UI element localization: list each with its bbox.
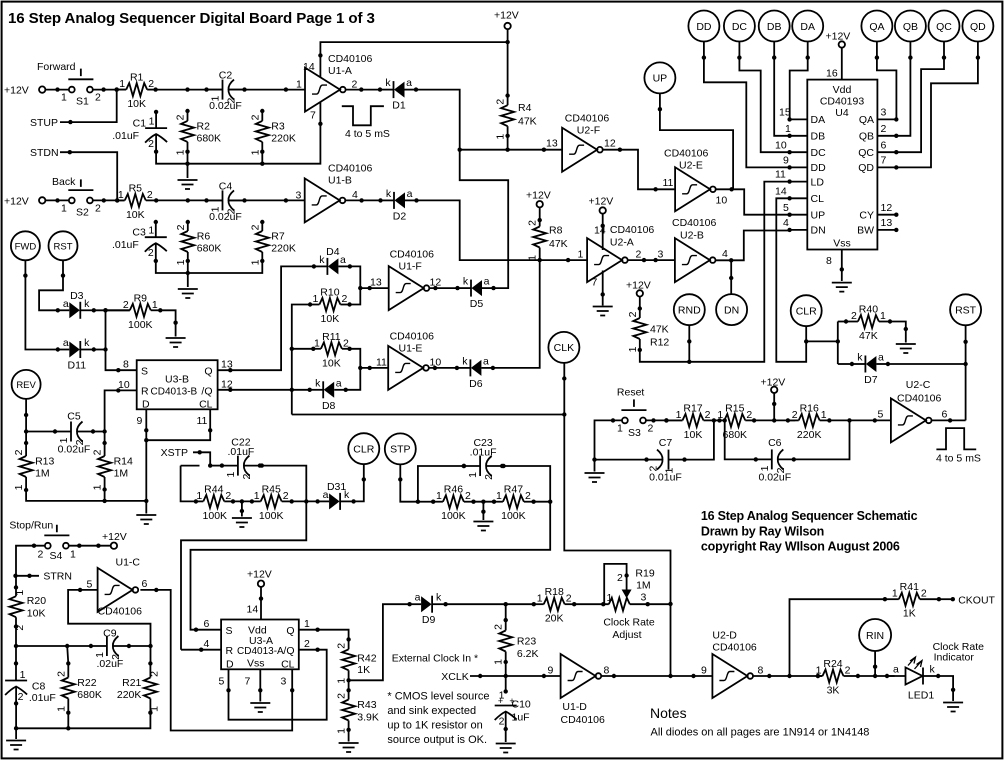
- svg-text:R10: R10: [320, 287, 339, 299]
- resistor R44: [194, 483, 236, 522]
- svg-text:13: 13: [370, 277, 382, 289]
- power +12V terminal: [102, 531, 127, 549]
- svg-text:12: 12: [604, 138, 616, 150]
- svg-text:+12V: +12V: [102, 531, 127, 543]
- power +12V terminal: [4, 195, 45, 207]
- svg-text:6: 6: [942, 408, 948, 420]
- svg-text:S3: S3: [628, 427, 641, 439]
- svg-text:9: 9: [137, 415, 143, 427]
- svg-text:CD4013-B: CD4013-B: [151, 387, 198, 398]
- svg-text:FWD: FWD: [15, 242, 37, 253]
- svg-text:C4: C4: [219, 180, 233, 192]
- connector DB: [759, 11, 790, 42]
- svg-text:1: 1: [336, 728, 348, 734]
- svg-text:2: 2: [746, 409, 752, 421]
- svg-text:16: 16: [826, 68, 838, 80]
- svg-text:U3-A: U3-A: [249, 635, 273, 647]
- svg-text:a: a: [484, 276, 490, 288]
- svg-text:+12V: +12V: [4, 85, 29, 97]
- wire R41 to CKOUT: [939, 594, 996, 606]
- svg-text:R24: R24: [823, 658, 842, 670]
- svg-text:copyright Ray WIlson August 20: copyright Ray WIlson August 2006: [701, 540, 900, 554]
- svg-text:k: k: [436, 592, 442, 604]
- svg-text:S2: S2: [76, 206, 89, 218]
- U2-A pin 7 wire to ground: [601, 271, 605, 306]
- capacitor C22: [220, 437, 262, 480]
- svg-text:1: 1: [496, 490, 502, 502]
- svg-text:U2-B: U2-B: [680, 230, 704, 242]
- svg-text:C7: C7: [659, 437, 673, 449]
- svg-text:U2-E: U2-E: [679, 160, 703, 172]
- pulse waveform 4 to 5 mS (high pulse): [936, 428, 981, 464]
- svg-text:2: 2: [483, 474, 495, 480]
- svg-text:1: 1: [467, 472, 479, 478]
- svg-text:QA: QA: [859, 114, 874, 126]
- svg-text:+12V: +12V: [494, 10, 519, 22]
- svg-text:R3: R3: [271, 120, 285, 132]
- svg-text:1: 1: [254, 490, 260, 502]
- wire R11 left to riser: [292, 348, 314, 350]
- svg-text:1: 1: [527, 255, 539, 261]
- wire R18 to R19: [574, 602, 609, 606]
- UP connector stem wire: [658, 93, 733, 189]
- ground: [339, 743, 359, 752]
- svg-text:R2: R2: [197, 120, 211, 132]
- svg-text:a: a: [878, 352, 884, 364]
- wire C23 right loop to R47 node and S riser: [191, 464, 553, 632]
- wire D3 to R9: [94, 309, 130, 311]
- capacitor C6: [754, 437, 796, 484]
- switch S3: [621, 399, 646, 423]
- svg-text:D31: D31: [327, 481, 346, 493]
- wire C6 right riser: [794, 420, 850, 459]
- svg-text:8: 8: [758, 664, 764, 676]
- svg-text:2: 2: [792, 409, 798, 421]
- svg-text:2: 2: [241, 474, 253, 480]
- U4 left pin leads: [775, 107, 807, 233]
- svg-text:680K: 680K: [197, 243, 222, 255]
- svg-text:R43: R43: [357, 699, 376, 711]
- svg-text:1: 1: [314, 337, 320, 349]
- svg-text:1: 1: [717, 409, 723, 421]
- svg-text:220K: 220K: [797, 429, 822, 441]
- svg-text:a: a: [63, 298, 69, 310]
- svg-text:STRN: STRN: [43, 570, 72, 582]
- svg-text:2: 2: [648, 423, 654, 435]
- svg-text:14: 14: [303, 61, 315, 73]
- svg-text:1: 1: [785, 123, 791, 135]
- wire +12V to S2: [45, 198, 68, 202]
- wire R14 top: [104, 432, 106, 444]
- resistor R2: [175, 109, 222, 156]
- svg-text:S: S: [226, 625, 233, 637]
- wire S3 left to ground: [592, 418, 622, 471]
- svg-text:1: 1: [578, 249, 584, 261]
- U1-B labels: [296, 163, 373, 202]
- node XCLK: [441, 665, 560, 684]
- wire U1-C output to U3-A CL: [140, 588, 294, 731]
- svg-text:14: 14: [247, 604, 259, 616]
- diode D1: [378, 77, 418, 112]
- svg-text:DN: DN: [724, 304, 739, 316]
- svg-text:k: k: [84, 337, 90, 349]
- svg-text:U2-A: U2-A: [610, 236, 634, 248]
- ground: [6, 741, 26, 750]
- svg-text:1: 1: [436, 490, 442, 502]
- svg-text:220K: 220K: [271, 132, 296, 144]
- svg-text:R46: R46: [444, 484, 463, 496]
- switch S4: [44, 525, 69, 549]
- svg-text:R6: R6: [197, 231, 211, 243]
- svg-text:R7: R7: [271, 231, 285, 243]
- svg-text:2: 2: [13, 449, 25, 455]
- STP stem wire to R46 node: [398, 464, 420, 504]
- svg-text:2: 2: [617, 572, 623, 584]
- svg-text:U1-C: U1-C: [116, 557, 141, 569]
- inverter U2-D: [712, 654, 753, 698]
- capacitor C2: [204, 70, 246, 113]
- wire S2 to R5 node: [93, 198, 124, 202]
- svg-text:C3: C3: [132, 227, 146, 239]
- svg-text:8: 8: [826, 255, 832, 267]
- svg-text:1: 1: [92, 484, 104, 490]
- connector STP: [385, 433, 416, 464]
- FWD stem wire to D11: [23, 260, 58, 349]
- svg-text:Adjust: Adjust: [612, 629, 641, 641]
- svg-text:C1: C1: [133, 118, 147, 130]
- svg-text:4 to 5 mS: 4 to 5 mS: [345, 128, 390, 140]
- svg-text:LED1: LED1: [908, 690, 934, 702]
- connector RND: [674, 294, 705, 325]
- connector QC: [929, 11, 960, 42]
- svg-text:2: 2: [499, 716, 505, 728]
- potentiometer R19: [603, 564, 655, 641]
- ground: [832, 283, 852, 292]
- svg-text:a: a: [406, 77, 412, 89]
- svg-text:DB: DB: [767, 21, 782, 33]
- svg-text:R22: R22: [77, 677, 96, 689]
- wire U2-A input row: [540, 249, 587, 263]
- svg-text:CD40106: CD40106: [672, 217, 717, 229]
- resistor R17: [664, 402, 716, 441]
- inverter U2-E: [675, 167, 716, 211]
- svg-text:R15: R15: [725, 402, 744, 414]
- wire U3-B /Q to D8: [218, 378, 310, 392]
- svg-text:and sink expected: and sink expected: [387, 705, 476, 717]
- CMOS note text: [387, 691, 489, 747]
- resistor R7: [249, 220, 296, 266]
- svg-text:10K: 10K: [27, 608, 46, 620]
- svg-text:2: 2: [95, 202, 101, 214]
- svg-text:R1: R1: [130, 72, 144, 84]
- connector QD: [962, 11, 993, 42]
- connector FWD: [11, 231, 40, 260]
- CLK stem and riser down: [562, 363, 673, 678]
- wire S1 to R1 node: [93, 87, 126, 91]
- wire R13 top: [25, 432, 27, 444]
- svg-text:2: 2: [636, 249, 642, 261]
- bottom rail C8 R22 R21: [14, 713, 151, 739]
- svg-text:a: a: [63, 337, 69, 349]
- wire R12 bottom rail to LD: [640, 182, 790, 364]
- svg-text:1: 1: [537, 593, 543, 605]
- svg-text:2: 2: [493, 624, 505, 630]
- resistor R46: [431, 484, 476, 523]
- wire R40 to ground: [838, 322, 908, 343]
- LED LED1: [885, 657, 941, 702]
- svg-text:a: a: [483, 355, 489, 367]
- svg-text:6: 6: [881, 139, 887, 151]
- wire R20 bottom to C9 row and C8: [14, 627, 18, 681]
- IC U4 CD40193: [807, 80, 877, 250]
- wire R23 top: [505, 604, 507, 620]
- svg-text:1: 1: [148, 706, 160, 712]
- svg-text:1: 1: [14, 590, 26, 596]
- svg-text:U3-B: U3-B: [165, 373, 189, 385]
- svg-text:13: 13: [546, 138, 558, 150]
- svg-text:XSTP: XSTP: [161, 447, 188, 459]
- svg-text:9: 9: [783, 155, 789, 167]
- svg-text:CLK: CLK: [554, 342, 574, 354]
- svg-text:UP: UP: [653, 73, 668, 85]
- U3-B D CL jumper and ground drop: [137, 409, 213, 513]
- wire D5 anode to U2-F input riser: [460, 150, 509, 288]
- svg-text:CD40106: CD40106: [712, 642, 757, 654]
- ground: [250, 703, 270, 712]
- svg-text:DA: DA: [800, 21, 815, 33]
- wire R11 to U1-E input: [346, 349, 389, 390]
- svg-text:7: 7: [310, 110, 316, 122]
- svg-text:8: 8: [604, 664, 610, 676]
- svg-text:U1-F: U1-F: [399, 261, 422, 273]
- svg-text:20K: 20K: [545, 613, 564, 625]
- svg-text:CD40106: CD40106: [610, 224, 655, 236]
- resistor R14: [92, 441, 133, 492]
- svg-text:R: R: [141, 386, 149, 398]
- wire C23 left loop: [418, 464, 466, 502]
- svg-text:10: 10: [118, 379, 130, 391]
- svg-text:47K: 47K: [650, 324, 669, 336]
- svg-text:R23: R23: [517, 636, 536, 648]
- wire +12V to S1: [45, 87, 68, 91]
- svg-text:R9: R9: [134, 292, 148, 304]
- svg-text:2: 2: [343, 337, 349, 349]
- svg-text:2: 2: [148, 671, 160, 677]
- wire C10 to ground: [505, 729, 507, 742]
- svg-text:Q: Q: [204, 366, 212, 378]
- svg-text:2: 2: [18, 691, 24, 703]
- wire R4 top from +12V rail: [507, 42, 509, 96]
- svg-text:6: 6: [142, 578, 148, 590]
- svg-text:R5: R5: [129, 182, 143, 194]
- svg-text:CKOUT: CKOUT: [958, 594, 995, 606]
- svg-text:1M: 1M: [35, 468, 50, 480]
- ground: [232, 518, 252, 527]
- ground: [473, 522, 493, 531]
- U2-C labels: [897, 379, 948, 420]
- svg-text:6: 6: [204, 618, 210, 630]
- U3-A Vdd +12V: [259, 587, 263, 620]
- svg-text:R: R: [226, 645, 234, 657]
- resistor R9: [103, 292, 162, 331]
- svg-text:k: k: [84, 298, 90, 310]
- svg-text:1: 1: [175, 149, 187, 155]
- svg-text:R17: R17: [683, 402, 702, 414]
- svg-text:1: 1: [70, 549, 76, 561]
- svg-text:16 Step Analog Sequencer Schem: 16 Step Analog Sequencer Schematic: [701, 509, 918, 523]
- resistor R3: [249, 109, 296, 156]
- resistor R20: [10, 585, 27, 630]
- connector CLR: [348, 433, 379, 464]
- svg-text:U1-E: U1-E: [399, 343, 423, 355]
- wire C8 to bottom rail: [15, 703, 17, 728]
- svg-text:0.02uF: 0.02uF: [758, 471, 791, 483]
- svg-text:CD40106: CD40106: [897, 393, 942, 405]
- svg-text:R4: R4: [518, 102, 532, 114]
- svg-text:1: 1: [61, 202, 67, 214]
- svg-text:3: 3: [281, 676, 287, 688]
- svg-text:S1: S1: [76, 96, 89, 108]
- svg-text:source output is OK.: source output is OK.: [387, 734, 487, 746]
- svg-text:R45: R45: [262, 483, 281, 495]
- switch S1: [37, 61, 93, 93]
- inverter U1-C: [98, 568, 139, 612]
- svg-text:U1-A: U1-A: [328, 65, 352, 77]
- connector DC: [724, 11, 755, 42]
- resistor R1: [115, 72, 158, 111]
- RIN stem wire: [873, 651, 877, 678]
- svg-text:2: 2: [851, 310, 857, 322]
- resistor R45: [250, 483, 294, 522]
- wire C7 to R17 node riser: [595, 420, 714, 459]
- svg-text:3K: 3K: [827, 685, 840, 697]
- wire R42 R43 junction: [348, 680, 350, 741]
- capacitor C1: [112, 110, 167, 154]
- svg-text:a: a: [340, 254, 346, 266]
- svg-text:U1-B: U1-B: [328, 175, 352, 187]
- svg-text:R11: R11: [322, 331, 341, 343]
- svg-text:QB: QB: [859, 131, 874, 143]
- svg-text:3: 3: [658, 249, 664, 261]
- svg-text:D11: D11: [68, 360, 87, 372]
- wire C4 to U1-B input: [229, 198, 305, 202]
- svg-text:+12V: +12V: [589, 196, 614, 208]
- svg-text:All diodes on all pages are 1N: All diodes on all pages are 1N914 or 1N4…: [651, 727, 870, 739]
- svg-text:1M: 1M: [114, 468, 129, 480]
- svg-text:+12V: +12V: [247, 569, 272, 581]
- ground: [496, 744, 516, 753]
- svg-text:a: a: [415, 592, 421, 604]
- svg-text:k: k: [930, 664, 936, 676]
- svg-text:DC: DC: [732, 21, 748, 33]
- svg-text:.02uF: .02uF: [96, 658, 123, 670]
- wire U1-E output to D6: [429, 366, 457, 370]
- ground: [178, 180, 198, 189]
- svg-text:9: 9: [701, 665, 707, 677]
- switch S2: [52, 176, 93, 203]
- svg-text:2: 2: [283, 490, 289, 502]
- svg-text:6.2K: 6.2K: [517, 648, 539, 660]
- wire QD connector to U4: [896, 42, 980, 168]
- svg-text:2: 2: [55, 671, 67, 677]
- svg-text:3.9K: 3.9K: [357, 712, 379, 724]
- svg-text:2: 2: [336, 693, 348, 699]
- svg-text:2: 2: [38, 549, 44, 561]
- resistor R4: [495, 93, 514, 139]
- U1-C labels: [87, 557, 148, 618]
- U4 right pin leads: [877, 107, 898, 233]
- connector REV: [12, 370, 41, 399]
- svg-text:CD40106: CD40106: [328, 53, 373, 65]
- svg-text:U2-C: U2-C: [906, 379, 931, 391]
- svg-text:U4: U4: [835, 107, 849, 119]
- svg-text:100K: 100K: [128, 319, 153, 331]
- svg-text:U2-D: U2-D: [712, 629, 737, 641]
- ground: [896, 344, 916, 353]
- svg-text:R42: R42: [357, 653, 376, 665]
- svg-text:2: 2: [95, 92, 101, 104]
- connector RST: [950, 294, 981, 325]
- svg-text:QB: QB: [903, 21, 918, 33]
- svg-text:R12: R12: [650, 337, 669, 349]
- node XSTP: [161, 447, 213, 468]
- capacitor C8: [5, 681, 27, 706]
- node STDN: [30, 147, 117, 200]
- resistor R13: [13, 441, 54, 492]
- RST stem wire down to U2-C output: [963, 325, 967, 420]
- svg-text:CD4013-A: CD4013-A: [237, 646, 284, 657]
- svg-text:STP: STP: [390, 444, 410, 456]
- svg-text:R21: R21: [122, 677, 141, 689]
- svg-text:1uF: 1uF: [512, 712, 530, 724]
- wire D6 anode to U2-A input riser: [493, 260, 540, 368]
- ground: [166, 338, 186, 347]
- svg-text:.01uF: .01uF: [112, 239, 139, 251]
- svg-text:R44: R44: [204, 483, 223, 495]
- connector CLK: [548, 332, 579, 363]
- wire U2-B output to U4 DN pin: [716, 231, 790, 263]
- diode D5: [455, 276, 495, 311]
- svg-text:7: 7: [881, 155, 887, 167]
- svg-text:QC: QC: [936, 21, 952, 33]
- wire U2-A output to U2-B input: [628, 249, 675, 263]
- svg-text:9: 9: [548, 665, 554, 677]
- svg-text:R13: R13: [35, 456, 54, 468]
- svg-text:CD40106: CD40106: [390, 331, 435, 343]
- svg-text:7: 7: [592, 276, 598, 288]
- svg-text:Q: Q: [286, 625, 294, 637]
- svg-text:a: a: [893, 664, 899, 676]
- wire U3-A R input: [181, 648, 221, 652]
- U2-F labels: [565, 113, 616, 150]
- Notes text: [650, 705, 869, 739]
- svg-text:C10: C10: [512, 699, 531, 711]
- svg-text:DN: DN: [811, 225, 826, 237]
- wire R22 top tap: [67, 646, 68, 663]
- svg-text:11: 11: [197, 415, 208, 427]
- IC U3-A CD4013-A: [221, 620, 299, 671]
- svg-text:Reset: Reset: [617, 387, 645, 399]
- wire D9 to R18: [446, 602, 534, 606]
- resistor R18: [532, 586, 577, 625]
- svg-text:1: 1: [55, 706, 67, 712]
- svg-text:3: 3: [641, 591, 647, 603]
- bottom rail row B: [156, 261, 262, 287]
- svg-text:2: 2: [465, 490, 471, 502]
- svg-text:2: 2: [525, 490, 531, 502]
- svg-text:k: k: [463, 276, 469, 288]
- svg-text:CD40106: CD40106: [565, 113, 610, 125]
